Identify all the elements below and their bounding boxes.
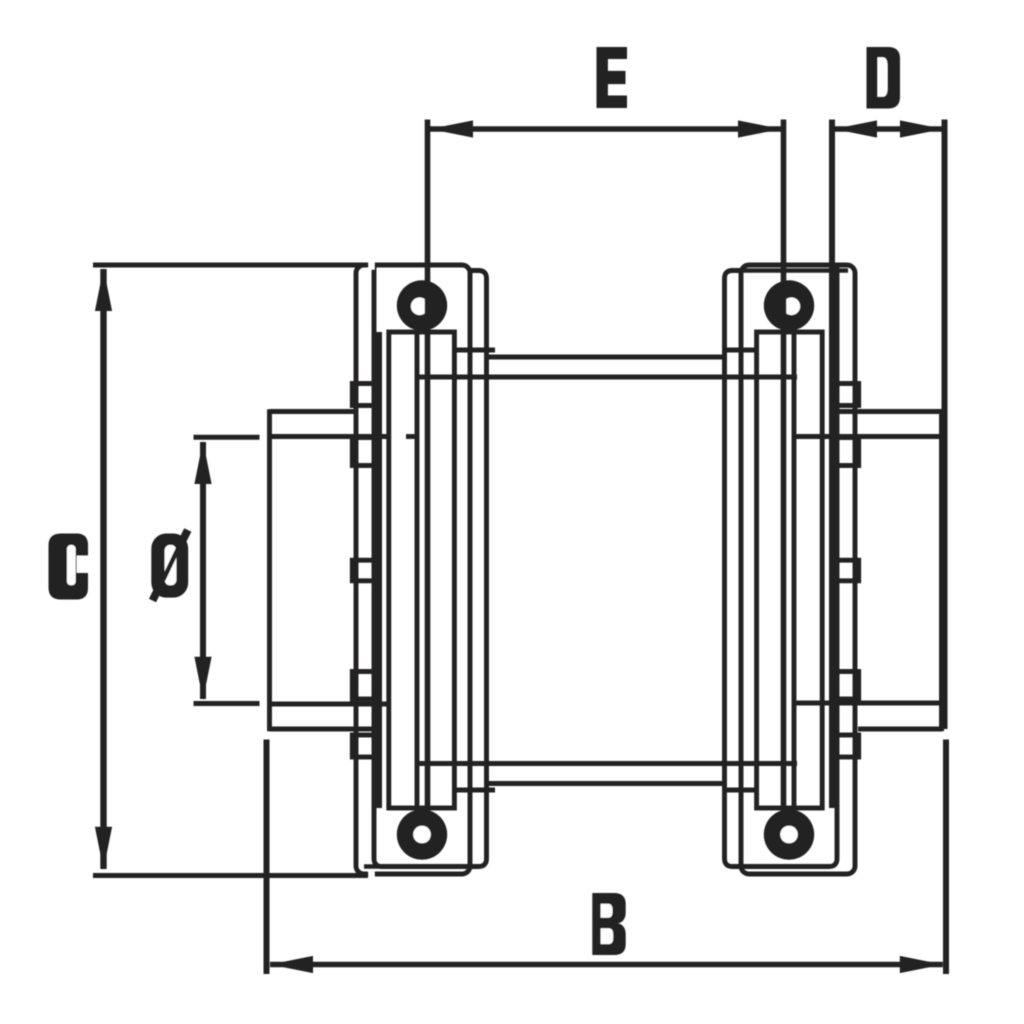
- bolt boss plate: [389, 332, 455, 808]
- left shaft bottom line: [270, 727, 376, 732]
- left flange doubled bottom edge: [364, 864, 383, 869]
- left shaft inner top line: [270, 434, 391, 439]
- label diameter body: [151, 534, 188, 598]
- ledge bottom left: [456, 788, 495, 793]
- B arrow right: [900, 956, 943, 973]
- label B upper counter: [601, 904, 613, 918]
- D extension line right: [942, 120, 948, 730]
- right shaft bottom line: [858, 727, 942, 732]
- label diameter slash bottom nib: [153, 589, 159, 601]
- D arrow right: [900, 120, 943, 137]
- diameter arrow down: [194, 657, 211, 700]
- label diameter slash top nib: [182, 530, 188, 542]
- right flange group (mirrored): [725, 120, 859, 875]
- tab 3: [352, 560, 374, 581]
- center body top line 2: [415, 375, 797, 380]
- label B lower counter: [601, 928, 614, 944]
- ledge top left: [456, 348, 495, 353]
- label D counter: [878, 57, 888, 97]
- label diameter counter: [165, 545, 177, 585]
- left shaft end face: [267, 409, 272, 731]
- E arrow left: [430, 120, 473, 137]
- E arrow right: [738, 120, 781, 137]
- tab 4: [352, 672, 374, 700]
- center body bottom line 2: [415, 761, 797, 766]
- left shaft top line: [270, 409, 359, 414]
- B dimension line: [270, 962, 943, 968]
- clamp band line: [374, 332, 382, 808]
- label diameter slash: [155, 532, 186, 597]
- right flange doubled top edge: [742, 268, 848, 273]
- label D: [867, 47, 901, 109]
- right shaft inner bottom line: [795, 701, 942, 706]
- C arrow up: [95, 268, 112, 311]
- B arrow left: [270, 956, 313, 973]
- bottom bolt: [397, 809, 447, 859]
- top bolt hole: [411, 298, 429, 316]
- D dimension line: [834, 126, 943, 132]
- label C counter: [67, 545, 76, 585]
- label E: [597, 47, 628, 108]
- C dimension line: [100, 269, 106, 869]
- C extension line top: [93, 263, 368, 268]
- flange outer housing: [356, 265, 470, 874]
- B extension line left: [264, 740, 270, 975]
- boss inner line: [415, 332, 420, 808]
- C extension line bottom: [93, 873, 368, 878]
- ledge bottom right: [725, 788, 755, 793]
- diameter tick bottom: [194, 701, 260, 706]
- D extension line left: [829, 120, 835, 335]
- D arrow left: [834, 120, 877, 137]
- top bolt: [397, 280, 447, 330]
- center body bottom line 1: [487, 781, 725, 786]
- tab 1: [352, 384, 374, 406]
- right shaft inner top line: [795, 434, 942, 439]
- diameter dimension line: [200, 442, 206, 699]
- right shaft end face: [939, 409, 944, 731]
- extension line E through bolts: [425, 120, 431, 816]
- E dimension line: [430, 126, 781, 132]
- diameter arrow up: [194, 441, 211, 484]
- tab 2: [352, 438, 374, 466]
- left shaft inner top stub: [406, 434, 417, 439]
- notch cover bottom: [368, 871, 374, 880]
- label C body: [49, 534, 89, 600]
- B extension line right: [943, 740, 949, 975]
- left shaft inner bottom line: [270, 702, 391, 707]
- right shaft top line: [836, 409, 942, 414]
- C arrow down: [95, 827, 112, 870]
- left flange group: [352, 120, 486, 875]
- diameter tick top: [194, 435, 260, 440]
- bottom bolt hole: [413, 826, 431, 844]
- notch cover top: [368, 262, 374, 270]
- ledge top right: [725, 348, 755, 353]
- label B: [592, 893, 625, 955]
- flange second housing plate: [374, 266, 487, 867]
- tab 5: [352, 735, 374, 757]
- center body top line 1: [487, 355, 725, 360]
